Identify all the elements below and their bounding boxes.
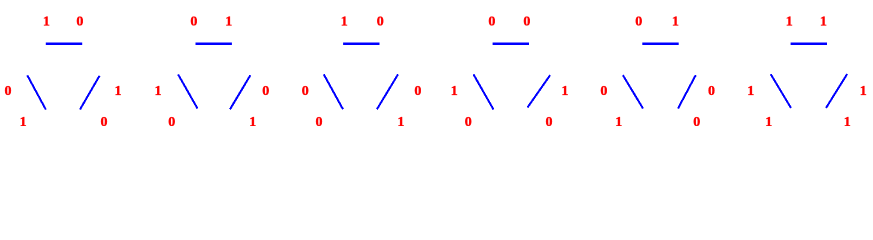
svg-text:0: 0 bbox=[523, 15, 530, 30]
triangle T3 right edge bbox=[377, 74, 398, 109]
svg-text:1: 1 bbox=[397, 115, 404, 126]
svg-text:1: 1 bbox=[765, 115, 772, 126]
svg-text:0: 0 bbox=[190, 15, 197, 30]
svg-text:1: 1 bbox=[155, 84, 162, 99]
svg-text:1: 1 bbox=[225, 15, 232, 30]
triangle T2 left edge bbox=[178, 74, 197, 108]
triangle T4 right edge bbox=[528, 75, 551, 107]
svg-text:0: 0 bbox=[168, 115, 175, 126]
svg-text:0: 0 bbox=[708, 84, 715, 99]
svg-text:1: 1 bbox=[615, 115, 622, 126]
svg-text:1: 1 bbox=[844, 115, 851, 126]
svg-text:1: 1 bbox=[786, 15, 793, 30]
svg-text:0: 0 bbox=[546, 115, 553, 126]
svg-text:1: 1 bbox=[860, 84, 867, 99]
triangle T5 left edge bbox=[623, 75, 643, 108]
svg-text:1: 1 bbox=[341, 15, 348, 30]
triangle T1 left edge bbox=[27, 75, 46, 109]
svg-text:1: 1 bbox=[820, 15, 827, 30]
triangle T6 top edge bbox=[791, 43, 827, 46]
triangle T3 top edge bbox=[343, 43, 379, 46]
svg-text:1: 1 bbox=[451, 84, 458, 99]
svg-text:0: 0 bbox=[262, 84, 269, 99]
svg-text:0: 0 bbox=[635, 15, 642, 30]
svg-text:0: 0 bbox=[76, 15, 83, 30]
svg-text:0: 0 bbox=[465, 115, 472, 126]
svg-text:0: 0 bbox=[488, 15, 495, 30]
svg-text:1: 1 bbox=[115, 84, 122, 99]
svg-text:0: 0 bbox=[600, 84, 607, 99]
svg-text:0: 0 bbox=[5, 84, 12, 99]
triangle T4 left edge bbox=[474, 74, 494, 109]
svg-text:0: 0 bbox=[377, 15, 384, 30]
triangle T2 right edge bbox=[230, 75, 250, 109]
svg-text:1: 1 bbox=[747, 84, 754, 99]
triangle T5 top edge bbox=[642, 43, 678, 46]
svg-text:1: 1 bbox=[672, 15, 679, 30]
svg-text:0: 0 bbox=[414, 84, 421, 99]
svg-text:1: 1 bbox=[43, 15, 50, 30]
triangle T6 right edge bbox=[826, 74, 847, 108]
svg-text:0: 0 bbox=[302, 84, 309, 99]
triangle T4 top edge bbox=[493, 43, 529, 46]
triangle T2 top edge bbox=[196, 43, 232, 46]
triangle T6 left edge bbox=[771, 74, 791, 108]
svg-text:0: 0 bbox=[693, 115, 700, 126]
svg-text:0: 0 bbox=[101, 115, 108, 126]
svg-text:1: 1 bbox=[561, 84, 568, 99]
triangle T5 right edge bbox=[678, 75, 696, 108]
triangle T3 left edge bbox=[324, 74, 343, 109]
svg-text:1: 1 bbox=[20, 115, 27, 126]
svg-text:1: 1 bbox=[249, 115, 256, 126]
triangle T1 top edge bbox=[46, 43, 82, 46]
svg-text:0: 0 bbox=[316, 115, 323, 126]
triangle T1 right edge bbox=[80, 76, 100, 110]
